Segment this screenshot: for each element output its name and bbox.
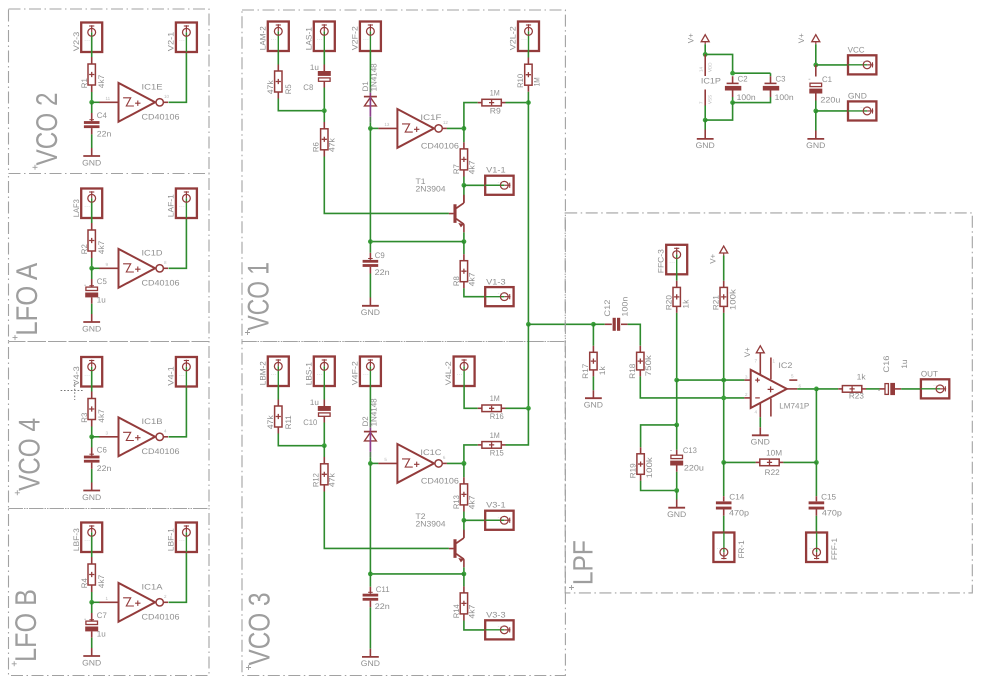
svg-text:1u: 1u	[97, 296, 106, 305]
junction	[703, 52, 708, 57]
pin of C11	[369, 601, 371, 608]
svg-text:1N4148: 1N4148	[370, 63, 379, 92]
svg-text:R8: R8	[452, 276, 461, 287]
junction	[368, 239, 373, 244]
svg-text:1M: 1M	[490, 394, 500, 403]
junction	[462, 461, 467, 466]
resistor R20 1k	[673, 287, 680, 306]
svg-text:...: ...	[363, 371, 369, 377]
pin of R9	[501, 102, 505, 104]
svg-text:R11: R11	[284, 415, 293, 430]
wire	[592, 376, 594, 390]
wire	[91, 469, 93, 483]
svg-text:1M: 1M	[532, 77, 541, 86]
svg-text:...: ...	[317, 36, 323, 42]
connector V1-1	[485, 176, 513, 195]
pin of R21	[723, 306, 725, 313]
pin of R12	[323, 457, 325, 464]
connector FR-1	[713, 533, 734, 563]
junction	[462, 461, 467, 466]
ground	[696, 139, 715, 150]
wire bus vertical into VCO3	[527, 324, 529, 408]
wire	[91, 437, 93, 448]
pin of C16	[895, 388, 901, 390]
svg-text:...: ...	[716, 545, 722, 551]
svg-text:...: ...	[933, 382, 939, 388]
svg-text:LBS-1: LBS-1	[304, 362, 313, 386]
diode D1 1N4148	[364, 64, 377, 129]
resistor R1	[88, 64, 95, 85]
wire	[676, 274, 678, 281]
wire	[91, 536, 93, 557]
pin of C4	[91, 113, 93, 121]
pin of R17	[592, 370, 594, 377]
pin of R1	[91, 85, 93, 92]
ground	[82, 322, 101, 333]
junction	[721, 460, 726, 465]
wire	[463, 574, 465, 587]
svg-text:C11: C11	[376, 585, 391, 594]
wire	[815, 101, 817, 111]
ground pin	[369, 298, 371, 306]
junction	[674, 423, 679, 428]
cap pin	[323, 81, 325, 87]
svg-text:GND: GND	[82, 324, 101, 333]
svg-text:220u: 220u	[820, 96, 840, 105]
pin of R1	[91, 57, 93, 64]
svg-text:470p: 470p	[822, 509, 843, 518]
ground	[806, 139, 825, 150]
svg-text:V+: V+	[743, 347, 752, 357]
op-amp IC1E (schmitt inverter)	[100, 83, 170, 122]
wire	[91, 36, 93, 57]
resistor R9 1M	[482, 99, 501, 106]
junction	[721, 378, 726, 383]
transistor T1 2N3904	[449, 195, 464, 233]
pin of C12	[605, 323, 612, 325]
svg-text:V+: V+	[686, 33, 695, 43]
svg-text:R17: R17	[581, 363, 590, 379]
wire bus to LPF	[528, 323, 593, 325]
svg-text:IC1F: IC1F	[420, 113, 441, 122]
svg-text:GND: GND	[806, 141, 825, 150]
svg-text:LFO A: LFO A	[11, 263, 44, 336]
wire emitter row	[370, 573, 464, 575]
svg-text:GND: GND	[82, 493, 101, 502]
wire	[278, 99, 324, 111]
pin of R17	[592, 346, 594, 353]
wire	[277, 51, 279, 64]
resistor R8 4k7	[460, 261, 467, 282]
resistor R17 1k	[590, 352, 597, 370]
wire diode node down	[369, 128, 371, 241]
svg-text:IC1B: IC1B	[142, 417, 163, 426]
svg-text:V1-1: V1-1	[486, 166, 506, 175]
svg-text:LFO B: LFO B	[10, 589, 43, 662]
svg-text:12: 12	[443, 120, 449, 125]
connector V2L-2	[518, 22, 539, 52]
collector pin of T1	[463, 197, 465, 203]
pin of C16	[880, 388, 885, 390]
op-amp IC1C (schmitt inverter)	[378, 444, 447, 483]
svg-text:CD40106: CD40106	[142, 279, 181, 288]
connector V4L-2	[454, 357, 475, 387]
wire	[723, 256, 725, 281]
junction	[368, 126, 373, 131]
ground	[584, 398, 603, 409]
wire feedback row	[724, 461, 756, 463]
resistor R18 750k	[637, 352, 644, 370]
frame VCO 4	[9, 342, 210, 509]
wire	[278, 434, 324, 446]
svg-text:4k7: 4k7	[97, 574, 106, 588]
wire to inverting input	[640, 376, 744, 398]
wire	[901, 388, 921, 390]
svg-text:...: ...	[363, 36, 369, 42]
svg-text:R12: R12	[311, 473, 320, 488]
svg-text:R6: R6	[311, 142, 320, 153]
svg-text:...: ...	[809, 545, 815, 551]
transistor T2 2N3904	[449, 530, 464, 568]
pin of R15	[501, 444, 505, 446]
resistor R16 1M	[482, 405, 501, 412]
pin of C14	[723, 496, 725, 501]
ground	[667, 508, 686, 519]
pin of R18	[639, 346, 641, 353]
wire to GND header	[816, 110, 848, 112]
capacitor C15 470p	[809, 501, 825, 509]
svg-text:IC1P: IC1P	[701, 76, 721, 85]
wire C13 top	[676, 425, 678, 450]
svg-text:47k: 47k	[266, 414, 275, 429]
svg-text:...: ...	[179, 371, 185, 377]
wire to R19	[641, 425, 677, 447]
svg-text:C16: C16	[882, 355, 891, 373]
wire	[770, 73, 772, 76]
svg-text:10: 10	[164, 94, 170, 99]
svg-text:IC1A: IC1A	[142, 582, 164, 591]
pin of R22	[756, 461, 760, 463]
pin of R11	[277, 400, 279, 407]
svg-text:FFF-1: FFF-1	[830, 537, 839, 560]
wire	[447, 127, 464, 129]
resistor R21 100k	[720, 287, 727, 306]
svg-text:C2: C2	[738, 74, 749, 83]
connector V1-3	[485, 287, 513, 306]
wire	[641, 481, 677, 491]
svg-text:CD40106: CD40106	[142, 113, 181, 122]
wire	[506, 102, 529, 104]
frame VCO 2	[9, 9, 210, 174]
ground	[82, 656, 101, 667]
ground pin	[592, 390, 594, 398]
svg-text:LPF: LPF	[567, 540, 598, 585]
wire to IC1P ground	[705, 103, 732, 121]
pin of C15	[815, 496, 817, 501]
pin of R9	[478, 102, 482, 104]
svg-text:R2: R2	[80, 244, 89, 255]
connector GND header	[848, 101, 876, 120]
resistor R23 1k	[842, 386, 861, 393]
svg-text:D2: D2	[361, 416, 370, 427]
wire bus to R15	[506, 408, 529, 445]
capacitor C9 22n	[363, 260, 379, 267]
svg-text:GND: GND	[667, 510, 686, 519]
wire	[91, 268, 93, 279]
resistor R12 47k	[321, 464, 328, 485]
wire	[91, 602, 93, 613]
wire	[797, 388, 816, 390]
junction	[462, 183, 467, 188]
wire emitter row	[370, 241, 464, 243]
diode D2 1N4148	[364, 399, 377, 464]
svg-text:C10: C10	[303, 418, 318, 427]
junction node LFO A	[89, 266, 94, 271]
svg-text:V4-1: V4-1	[166, 366, 175, 386]
svg-text:C4: C4	[97, 111, 108, 120]
wire to VCC header	[816, 64, 848, 66]
resistor R13 4k7	[460, 484, 467, 505]
pin of R11	[277, 427, 279, 434]
pin of C15	[815, 510, 817, 516]
pin of R8	[463, 282, 465, 289]
pin of R14	[463, 614, 465, 621]
ground	[82, 156, 101, 167]
svg-text:13: 13	[384, 122, 390, 127]
IC1P power pins of IC1	[699, 54, 713, 105]
svg-text:...: ...	[179, 537, 185, 543]
connector V4F-2	[360, 357, 381, 387]
wire output bus vertical	[527, 103, 529, 325]
pin of R4	[91, 585, 93, 592]
svg-text:100n: 100n	[775, 93, 794, 102]
wire	[92, 436, 100, 438]
svg-text:C3: C3	[776, 74, 787, 83]
op-amp IC1F (schmitt inverter)	[378, 109, 448, 148]
wire	[463, 520, 465, 531]
svg-text:R1: R1	[80, 78, 89, 89]
svg-text:VCO 4: VCO 4	[13, 418, 46, 491]
connector LBS-1	[314, 357, 335, 387]
resistor R5 47k	[275, 71, 282, 92]
svg-text:GND: GND	[848, 92, 867, 101]
pin of C1	[815, 94, 817, 101]
svg-text:FFC-3: FFC-3	[657, 249, 666, 274]
svg-text:V+: V+	[708, 253, 717, 263]
frame LFO B	[9, 509, 210, 676]
wire	[323, 446, 325, 457]
svg-text:...: ...	[497, 290, 503, 296]
cap pin	[323, 65, 325, 72]
svg-text:...: ...	[84, 37, 90, 43]
V+ supply (R21)	[720, 246, 728, 256]
ground	[82, 491, 101, 502]
wire	[463, 463, 465, 477]
wire	[91, 304, 93, 314]
wire	[369, 386, 371, 398]
wire	[815, 111, 817, 131]
wire	[783, 461, 816, 463]
svg-text:4k7: 4k7	[97, 74, 106, 88]
V+ supply (C1)	[812, 35, 820, 45]
pin of R20	[676, 281, 678, 288]
pin of R22	[779, 461, 783, 463]
svg-text:1u: 1u	[310, 398, 319, 407]
svg-text:4k7: 4k7	[467, 604, 476, 619]
resistor R14 4k7	[460, 593, 467, 614]
svg-text:...: ...	[84, 371, 90, 377]
resistor R15 1M	[482, 442, 501, 449]
wire	[169, 552, 187, 602]
origin cross	[33, 165, 38, 170]
svg-text:C1: C1	[822, 75, 833, 84]
connector FFC-3	[666, 245, 687, 274]
capacitor C6	[84, 456, 100, 463]
svg-text:2N3904: 2N3904	[416, 185, 447, 194]
svg-text:...: ...	[860, 58, 866, 64]
wire	[704, 120, 706, 129]
pin of R7	[463, 142, 465, 149]
pin of C9	[369, 253, 371, 260]
wire to transistor base	[324, 157, 449, 214]
pin of R5	[277, 92, 279, 99]
svg-text:C15: C15	[821, 492, 837, 501]
wire	[323, 111, 325, 122]
junction	[703, 118, 708, 123]
resistor R3	[88, 399, 95, 420]
connector LAF3	[81, 189, 102, 219]
svg-text:VCO 2: VCO 2	[31, 93, 64, 166]
wire to non-inverting input	[677, 379, 745, 381]
connector LBF-1	[176, 523, 197, 553]
wire	[723, 462, 725, 496]
svg-text:V2L-2: V2L-2	[509, 26, 518, 51]
resistor R7 4k7	[460, 149, 467, 170]
pin of R16	[478, 407, 482, 409]
junction node LFO B	[89, 600, 94, 605]
wire	[369, 274, 371, 298]
svg-text:V4-3: V4-3	[72, 366, 81, 386]
pin of R16	[501, 407, 505, 409]
junction	[813, 109, 818, 114]
junction	[730, 71, 735, 76]
pin of R21	[723, 281, 725, 288]
svg-text:IC1E: IC1E	[142, 82, 163, 91]
svg-text:LAF-1: LAF-1	[166, 194, 175, 218]
wire	[91, 202, 93, 223]
wire	[323, 88, 325, 111]
junction	[721, 396, 726, 401]
capacitor C4	[84, 121, 100, 128]
svg-text:4k7: 4k7	[97, 409, 106, 423]
svg-text:R9: R9	[490, 106, 502, 115]
svg-text:GND: GND	[696, 141, 715, 150]
pin of R12	[323, 485, 325, 492]
wire	[323, 51, 325, 64]
connector V4-1	[176, 357, 197, 387]
svg-text:R7: R7	[452, 164, 461, 175]
pin of C7	[91, 613, 93, 621]
svg-text:1M: 1M	[490, 89, 500, 98]
junction	[322, 443, 327, 448]
svg-text:CD40106: CD40106	[142, 447, 181, 456]
svg-text:22n: 22n	[97, 464, 112, 473]
cap pin	[323, 400, 325, 407]
svg-text:750k: 750k	[644, 354, 653, 376]
wire	[676, 472, 678, 491]
wire	[92, 601, 100, 603]
svg-text:R16: R16	[490, 412, 505, 421]
svg-text:R5: R5	[284, 84, 293, 95]
svg-text:100k: 100k	[728, 288, 737, 310]
svg-text:...: ...	[497, 178, 503, 184]
svg-text:4k7: 4k7	[97, 240, 106, 254]
svg-text:C9: C9	[375, 251, 386, 260]
svg-text:22n: 22n	[375, 268, 390, 277]
svg-text:IC1C: IC1C	[420, 448, 441, 457]
svg-text:C12: C12	[603, 299, 612, 317]
wire	[369, 574, 371, 587]
svg-text:LM741P: LM741P	[779, 401, 809, 410]
svg-text:47k: 47k	[327, 137, 336, 152]
wire	[464, 184, 485, 186]
svg-text:C14: C14	[729, 492, 745, 501]
pin of C12	[621, 323, 628, 325]
wire	[815, 516, 817, 533]
op-amp IC1D (schmitt inverter)	[100, 249, 169, 288]
svg-text:LAF3: LAF3	[72, 199, 81, 218]
pin of C13	[676, 450, 678, 455]
svg-text:R15: R15	[490, 449, 505, 458]
pin of R6	[323, 122, 325, 129]
svg-text:LBF-3: LBF-3	[72, 528, 81, 552]
connector V3-1	[485, 511, 513, 530]
wire output down	[815, 389, 817, 463]
capacitor C11 22n	[363, 594, 379, 601]
wire	[732, 97, 734, 103]
capacitor C1 220u	[809, 83, 822, 93]
junction	[462, 572, 467, 577]
pin of R19	[640, 474, 642, 481]
svg-text:R13: R13	[452, 495, 461, 510]
wire	[92, 267, 100, 269]
wire	[91, 638, 93, 648]
svg-text:100n: 100n	[621, 297, 630, 317]
connector LAM-2	[268, 22, 289, 52]
wire	[369, 242, 371, 253]
pin of R18	[639, 370, 641, 377]
wire	[447, 462, 464, 464]
svg-text:1u: 1u	[900, 360, 909, 369]
connector VCC	[848, 55, 876, 74]
wire	[369, 51, 371, 63]
svg-text:V2-3: V2-3	[72, 31, 81, 51]
connector V2-3	[81, 23, 102, 53]
svg-text:GND: GND	[361, 659, 380, 668]
svg-text:LBM-2: LBM-2	[258, 361, 267, 386]
connector V2F-2	[360, 22, 381, 52]
svg-text:V3-3: V3-3	[486, 611, 506, 620]
svg-text:C6: C6	[97, 445, 108, 454]
op-amp IC1B (schmitt inverter)	[100, 417, 169, 456]
junction node VCO 4	[89, 434, 94, 439]
svg-text:...: ...	[497, 623, 503, 629]
cap pin	[323, 416, 325, 422]
svg-text:1N4148: 1N4148	[370, 398, 379, 427]
junction	[462, 126, 467, 131]
wire	[169, 52, 187, 102]
pin of R6	[323, 150, 325, 157]
